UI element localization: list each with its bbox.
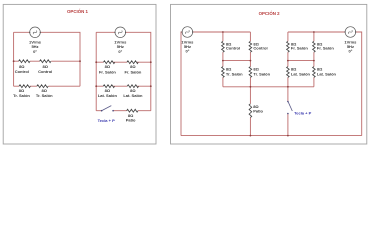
svg-text:Patio: Patio bbox=[126, 117, 136, 122]
svg-text:Tr. Salón: Tr. Salón bbox=[36, 93, 53, 98]
node A-left bbox=[222, 60, 224, 62]
node rail-D junction bbox=[313, 31, 315, 33]
AC source V3 1Vrms 5Hz 0° bbox=[181, 27, 194, 54]
wire S1 outer loop bbox=[14, 32, 80, 86]
wire S2 row2 branch bbox=[96, 85, 151, 87]
svg-text:OPCIÓN 2: OPCIÓN 2 bbox=[259, 11, 281, 16]
node A-right bbox=[250, 60, 252, 62]
svg-text:Patio: Patio bbox=[253, 108, 263, 113]
svg-text:OPCIÓN 1: OPCIÓN 1 bbox=[67, 9, 89, 14]
wire column A x=223 bbox=[222, 32, 224, 87]
wire S2 bottom branch bbox=[96, 110, 151, 112]
node rail-col B junction bbox=[250, 135, 252, 137]
node S1 middle-left bbox=[13, 60, 15, 62]
resistor R7 8Ω Lat. Salón bbox=[98, 85, 118, 98]
switch S1 Tecla + P bbox=[98, 106, 115, 123]
node rail-col C junction bbox=[287, 135, 289, 137]
resistor R2 8Ω Control bbox=[38, 60, 52, 74]
svg-text:Lat. Salón: Lat. Salón bbox=[317, 71, 337, 76]
node S1 middle-right bbox=[79, 60, 81, 62]
svg-text:0°: 0° bbox=[348, 49, 352, 54]
node C-right bbox=[313, 60, 315, 62]
svg-text:Control: Control bbox=[226, 46, 240, 51]
wire bottom rail bbox=[181, 135, 362, 137]
svg-text:0°: 0° bbox=[118, 49, 122, 54]
AC source V1 1Vrms 5Hz 0° bbox=[29, 27, 42, 54]
wire node A connector bbox=[223, 60, 251, 62]
svg-text:Tr. Salón: Tr. Salón bbox=[226, 71, 243, 76]
resistor R3 8Ω Tr. Salón bbox=[13, 85, 30, 98]
node rail-A junction bbox=[222, 31, 224, 33]
resistor R16 8Ω Lat. Salón bbox=[287, 67, 311, 78]
svg-text:Fr. Salón: Fr. Salón bbox=[124, 69, 141, 74]
resistor R10 8Ω Control bbox=[222, 41, 241, 52]
resistor R15 8Ω Fr. Salón bbox=[313, 41, 335, 52]
resistor R12 8Ω Tr. Salón bbox=[222, 67, 244, 78]
svg-text:Lat. Salón: Lat. Salón bbox=[98, 93, 118, 98]
svg-text:Lat. Salón: Lat. Salón bbox=[291, 71, 311, 76]
node S2 row2-right bbox=[150, 85, 152, 87]
AC source V4 1Vrms 5Hz 0° bbox=[344, 27, 357, 54]
node B-col B junction bbox=[250, 86, 252, 88]
AC source V2 1Vrms 5Hz 0° bbox=[114, 27, 127, 54]
resistor R4 8Ω Tr. Salón bbox=[36, 85, 53, 98]
node C-left bbox=[287, 60, 289, 62]
wire S1 bottom branch bbox=[14, 85, 80, 87]
resistor R18 8Ω Patio bbox=[249, 104, 263, 118]
node S2 row1-left bbox=[95, 61, 97, 63]
svg-text:0°: 0° bbox=[33, 49, 37, 54]
wire S2 outer loop bbox=[96, 32, 151, 110]
wire column B x=250 bbox=[249, 32, 251, 136]
resistor R11 8Ω Control bbox=[249, 41, 268, 52]
resistor R17 8Ω Lat. Salón bbox=[313, 67, 337, 78]
wire top rail right bbox=[288, 31, 345, 33]
svg-text:0°: 0° bbox=[185, 49, 189, 54]
svg-text:Tr. Salón: Tr. Salón bbox=[13, 93, 30, 98]
node B-col C junction bbox=[287, 86, 289, 88]
wire V4 right drop bbox=[356, 32, 362, 136]
resistor R14 8Ω Fr. Salón bbox=[287, 41, 309, 52]
resistor R13 8Ω Tr. Salón bbox=[249, 67, 271, 78]
wire top rail left bbox=[193, 31, 251, 33]
node S2 row1-right bbox=[150, 61, 152, 63]
svg-text:Tr. Salón: Tr. Salón bbox=[253, 71, 270, 76]
resistor R1 8Ω Control bbox=[15, 60, 30, 74]
wire V3 left drop bbox=[181, 32, 182, 136]
svg-text:Control: Control bbox=[15, 69, 29, 74]
svg-text:Control: Control bbox=[38, 69, 52, 74]
wire column C x=288 bbox=[287, 32, 289, 136]
wire node B connector bbox=[223, 86, 314, 88]
resistor R8 8Ω Lat. Salón bbox=[123, 85, 143, 98]
wire column D x=314 bbox=[313, 32, 315, 87]
svg-text:Control: Control bbox=[253, 46, 267, 51]
resistor R6 8Ω Fr. Salón bbox=[124, 61, 141, 75]
svg-text:Fr. Salón: Fr. Salón bbox=[317, 46, 334, 51]
resistor R9 8Ω Patio bbox=[126, 109, 138, 122]
enclosure box option 2 bbox=[171, 4, 367, 144]
resistor R5 8Ω Fr. Salón bbox=[99, 61, 116, 75]
wire S2 row1 branch bbox=[96, 61, 151, 63]
wire S1 middle branch bbox=[14, 60, 80, 62]
svg-text:Fr. Salón: Fr. Salón bbox=[99, 69, 116, 74]
node S2 row2-left bbox=[95, 85, 97, 87]
switch S2 Tecla + P bbox=[287, 101, 311, 116]
svg-text:Fr. Salón: Fr. Salón bbox=[291, 46, 308, 51]
wire node C connector bbox=[288, 60, 314, 62]
svg-text:Lat. Salón: Lat. Salón bbox=[123, 93, 143, 98]
enclosure box option 1 bbox=[3, 4, 156, 144]
svg-text:Tecla + P: Tecla + P bbox=[294, 110, 311, 115]
svg-text:Tecla + P: Tecla + P bbox=[98, 118, 115, 123]
